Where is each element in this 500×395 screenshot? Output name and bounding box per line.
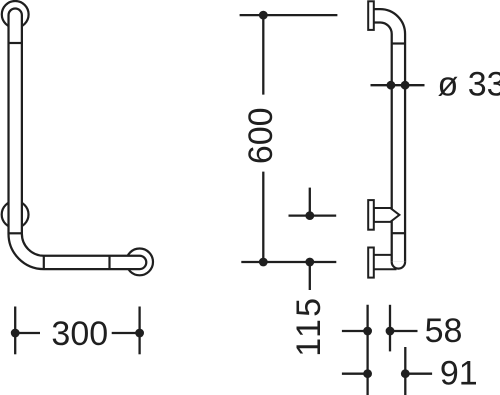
side view: tube bottom round end cap: [392, 262, 405, 269]
front view: joint line below top cap: [8, 42, 23, 44]
dimension 600: top reference line: [240, 14, 338, 16]
svg-text:91: 91: [440, 354, 478, 392]
side view: top wall plate: [368, 1, 374, 30]
dimension 58: tube near-edge extension line: [389, 305, 391, 352]
front view: joint line above elbow: [8, 232, 23, 234]
dimension 58: left dot: [363, 327, 372, 336]
front view: top wall flange circle: [2, 1, 29, 28]
dimension 91: left dot: [363, 369, 372, 378]
dimension 300: right dot: [135, 329, 144, 338]
side view: bottom wall plate: [368, 248, 374, 278]
dimension 115: lower tail: [309, 262, 311, 290]
side view: grab-bar tube (outline): [374, 16, 398, 262]
dimension 600: bottom reference line: [241, 261, 336, 263]
dimension 300: left extension line: [14, 307, 16, 355]
side view: grab-bar tube (white core): [374, 16, 398, 262]
dimension diameter 33: left dot: [387, 81, 396, 90]
dimension 58: right tail: [390, 330, 418, 332]
front view: middle wall flange circle: [2, 201, 29, 228]
dimension 300: right leader: [112, 332, 140, 334]
svg-text:115: 115: [290, 296, 328, 357]
side view: joint line below top bend: [392, 42, 405, 44]
dimension 300: left dot: [11, 329, 20, 338]
dimension 600: lower dimension line segment: [262, 172, 264, 262]
dimension diameter 33: right dot: [401, 81, 410, 90]
dimension diameter 33: dimension line: [371, 84, 425, 86]
dimension 58: left tail: [342, 330, 368, 332]
svg-text:300: 300: [51, 315, 108, 353]
svg-text:ø 33: ø 33: [438, 66, 500, 104]
front view: L-shaped grab-bar tube (white core): [15, 15, 139, 262]
dimension 300: left leader: [15, 332, 40, 334]
side view: joint line above bottom section: [392, 232, 405, 234]
dimension 300: right extension line: [138, 307, 140, 355]
dimension 91: left tail: [342, 373, 368, 375]
dimension 600: bottom dot: [259, 258, 268, 267]
dimension 58: right dot: [386, 327, 395, 336]
front view: joint line before right end cap: [108, 256, 110, 269]
dimension 115: upper reference line: [289, 214, 337, 216]
dimension 58: wall extension line: [366, 305, 368, 395]
front view: right-end wall flange circle: [126, 249, 153, 276]
front view: L-shaped grab-bar tube (outline): [15, 15, 139, 262]
dimension 115: upper tail: [309, 188, 311, 216]
dimension 600: upper dimension line segment: [262, 15, 264, 95]
dimension 91: tube far-edge extension line: [404, 347, 406, 395]
side view: bottom bracket arm top line: [374, 254, 392, 256]
dimension 115: upper dot: [305, 211, 314, 220]
side view: bottom bracket arm bottom line: [374, 268, 397, 270]
dimension 91: right tail: [405, 373, 432, 375]
front view: joint line right of elbow: [43, 256, 45, 269]
dimension 91: right dot: [401, 369, 410, 378]
svg-text:58: 58: [425, 312, 463, 350]
dimension 115: lower dot: [305, 258, 314, 267]
dimension 600: top dot: [259, 11, 268, 20]
side view: middle wall plate: [368, 200, 374, 230]
svg-text:600: 600: [242, 107, 280, 164]
side view: middle bracket cone arm: [374, 208, 400, 222]
